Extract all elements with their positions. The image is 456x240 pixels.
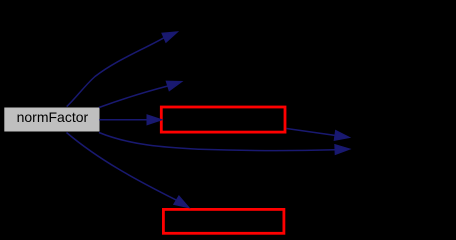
svg-text:normFactor: normFactor [17,109,89,125]
